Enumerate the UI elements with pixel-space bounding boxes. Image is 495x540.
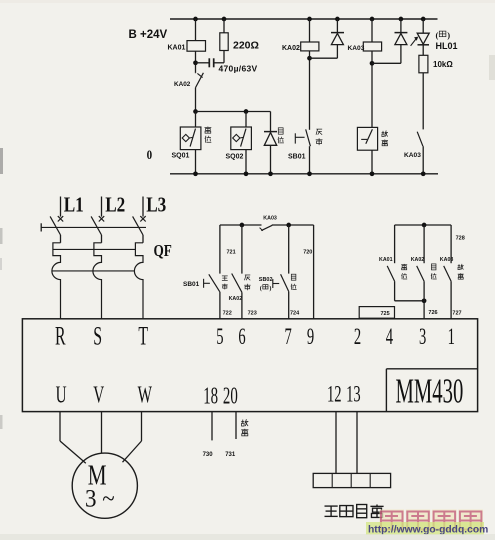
svg-text:http://www.go-gddq.com: http://www.go-gddq.com <box>368 525 488 536</box>
svg-text:KA03: KA03 <box>348 45 365 52</box>
svg-text:KA03: KA03 <box>263 216 277 222</box>
svg-text:7: 7 <box>285 325 292 350</box>
svg-text:KA02: KA02 <box>174 81 191 88</box>
svg-text:W: W <box>138 382 153 408</box>
svg-text:730: 730 <box>203 452 214 458</box>
svg-text:220Ω: 220Ω <box>233 39 259 51</box>
svg-text:(: ( <box>436 30 439 40</box>
svg-text:): ) <box>269 285 271 292</box>
svg-text:13: 13 <box>346 382 361 407</box>
svg-text:722: 722 <box>223 311 232 317</box>
svg-text:KA01: KA01 <box>379 257 393 263</box>
svg-text:3 ~: 3 ~ <box>85 485 115 512</box>
svg-text:R: R <box>55 322 66 351</box>
svg-text:QF: QF <box>154 243 172 261</box>
svg-text:KA02: KA02 <box>229 296 243 302</box>
svg-text:(: ( <box>260 285 262 292</box>
svg-text:KA02: KA02 <box>282 45 300 52</box>
svg-text:0: 0 <box>147 147 153 162</box>
svg-text:731: 731 <box>225 452 236 458</box>
svg-text:SB02: SB02 <box>259 277 273 283</box>
svg-text:6: 6 <box>238 325 245 350</box>
svg-text:728: 728 <box>456 235 465 241</box>
svg-text:KA01: KA01 <box>168 45 186 52</box>
svg-text:725: 725 <box>381 311 390 317</box>
svg-text:L3: L3 <box>146 194 166 217</box>
svg-text:B +24V: B +24V <box>129 29 168 41</box>
svg-text:18: 18 <box>203 383 218 409</box>
svg-text:SB01: SB01 <box>288 153 306 160</box>
svg-text:721: 721 <box>227 249 236 255</box>
svg-text:V: V <box>93 382 104 408</box>
svg-text:9: 9 <box>307 325 314 350</box>
svg-text:HL01: HL01 <box>436 41 458 51</box>
svg-text:470µ/63V: 470µ/63V <box>219 63 258 73</box>
svg-text:4: 4 <box>386 325 393 350</box>
svg-text:SB01: SB01 <box>183 281 200 288</box>
svg-text:726: 726 <box>428 310 437 316</box>
svg-text:12: 12 <box>327 382 342 407</box>
svg-text:KA02: KA02 <box>411 257 425 263</box>
svg-text:MM430: MM430 <box>396 373 464 411</box>
svg-text:1: 1 <box>448 325 455 350</box>
svg-text:724: 724 <box>290 311 300 317</box>
svg-text:U: U <box>56 382 67 408</box>
svg-text:): ) <box>447 30 450 40</box>
svg-text:723: 723 <box>248 311 257 317</box>
svg-text:L1: L1 <box>64 194 84 217</box>
svg-text:KA03: KA03 <box>440 257 454 263</box>
svg-text:10kΩ: 10kΩ <box>433 60 453 69</box>
svg-text:720: 720 <box>303 249 312 255</box>
svg-text:727: 727 <box>452 311 461 317</box>
svg-text:SQ01: SQ01 <box>172 153 190 160</box>
svg-text:5: 5 <box>216 325 223 350</box>
svg-text:S: S <box>93 322 102 351</box>
svg-text:20: 20 <box>223 383 238 409</box>
svg-text:T: T <box>138 322 148 351</box>
svg-text:2: 2 <box>354 325 361 350</box>
svg-text:L2: L2 <box>105 194 125 217</box>
svg-text:3: 3 <box>419 325 426 350</box>
svg-text:SQ02: SQ02 <box>226 154 244 161</box>
svg-text:KA03: KA03 <box>404 152 421 159</box>
